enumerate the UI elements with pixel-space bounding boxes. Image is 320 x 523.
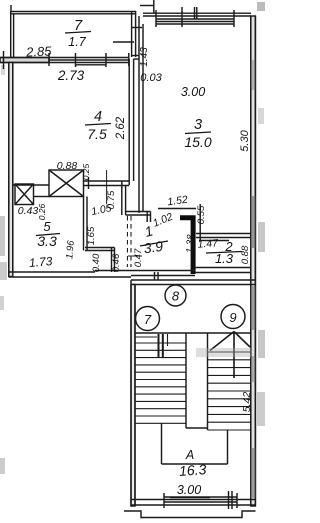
svg-text:1.38: 1.38 (185, 234, 197, 254)
svg-text:5: 5 (43, 219, 51, 234)
svg-text:1.43: 1.43 (139, 47, 150, 67)
svg-text:1.3: 1.3 (215, 251, 234, 266)
wall room4 right (129, 59, 133, 185)
room3 bottom wall (196, 234, 251, 238)
stair block bottom wall with window (131, 491, 255, 509)
landing bottom line (135, 332, 251, 334)
hall dashed door lines (127, 216, 131, 267)
wall ticks between apartment and stairs (155, 272, 159, 280)
left flight treads (135, 337, 187, 423)
room4 bottom wall (13, 177, 129, 189)
WC cubicle walls (85, 248, 115, 273)
svg-text:0.88: 0.88 (57, 160, 78, 172)
svg-text:0.40: 0.40 (91, 253, 102, 272)
balcony room7 top wall (11, 12, 136, 14)
apartment left wall (9, 63, 13, 278)
dim helper line 1.05 (106, 170, 108, 204)
apartment bottom wall (9, 268, 251, 278)
niche wall line 0.55 (199, 204, 201, 240)
svg-text:15.0: 15.0 (184, 134, 211, 150)
hall top jog wall (126, 212, 151, 223)
svg-text:0.75: 0.75 (106, 190, 117, 209)
svg-text:7: 7 (144, 312, 152, 327)
room 5 fraction line (36, 234, 60, 236)
dim line 1.52 (158, 208, 196, 210)
svg-text:0.55: 0.55 (196, 205, 207, 224)
wall between balcony and room4 with window (0, 51, 129, 69)
svg-text:1.7: 1.7 (68, 35, 86, 49)
balcony room7 left wall (11, 5, 14, 63)
svg-text:1.47: 1.47 (197, 237, 219, 250)
svg-text:9: 9 (229, 310, 236, 325)
svg-text:3.00: 3.00 (177, 483, 201, 497)
scan smudges right edge (257, 2, 265, 426)
stair stringer (186, 333, 208, 430)
svg-text:0.46: 0.46 (111, 253, 122, 272)
circle 8 (165, 285, 186, 306)
wall room3 left (132, 16, 143, 213)
svg-text:3.00: 3.00 (181, 85, 205, 99)
dim line 0.47 hall (128, 255, 142, 257)
room 1 fraction line (140, 241, 168, 246)
room 7 fraction line (65, 32, 91, 34)
svg-text:2.85: 2.85 (25, 43, 53, 59)
svg-text:0.47: 0.47 (133, 248, 144, 267)
svg-text:16.3: 16.3 (179, 461, 208, 479)
svg-text:2.62: 2.62 (115, 116, 127, 140)
svg-text:1.96: 1.96 (64, 239, 77, 259)
circle 7 (136, 307, 160, 331)
svg-text:8: 8 (172, 289, 180, 304)
svg-text:2.73: 2.73 (57, 68, 85, 83)
thick L-wall hall/room2 (180, 215, 196, 274)
shaft X-box large (49, 170, 84, 197)
scan smudges left edge (0, 65, 7, 474)
apartment right wall (251, 16, 256, 506)
entrance porch step (124, 511, 256, 518)
svg-text:0.43: 0.43 (18, 205, 39, 217)
room 4 fraction line (85, 124, 111, 126)
svg-text:0.03: 0.03 (140, 72, 162, 84)
balcony room7 right wall (113, 11, 142, 57)
stair direction arrow (210, 332, 250, 379)
svg-text:5.42: 5.42 (241, 392, 253, 413)
svg-text:0.26: 0.26 (37, 203, 47, 220)
scan hook mark top (140, 0, 154, 13)
dim line 1.47 (199, 240, 229, 242)
svg-text:0.88: 0.88 (240, 245, 251, 264)
right flight treads (208, 352, 251, 430)
landing A outline (162, 423, 228, 464)
hall left wall upper (122, 181, 126, 215)
svg-text:7.5: 7.5 (87, 126, 107, 142)
smudge across right flight (196, 348, 251, 357)
wall room5/hall (84, 197, 88, 251)
wall stub under big shaft (34, 196, 50, 198)
svg-text:5.30: 5.30 (239, 129, 251, 151)
right wall dark blotches (251, 60, 256, 498)
svg-text:3: 3 (194, 117, 202, 133)
svg-text:0.25: 0.25 (81, 163, 91, 180)
svg-text:1.73: 1.73 (28, 254, 53, 270)
svg-text:A: A (185, 448, 194, 462)
room 3 fraction line (185, 132, 211, 134)
stair door hatch (159, 334, 168, 357)
svg-text:3.9: 3.9 (143, 238, 165, 257)
svg-text:4: 4 (94, 109, 102, 125)
svg-text:3.3: 3.3 (37, 233, 57, 249)
shaft X-box small (15, 184, 34, 205)
room 2 fraction line (206, 252, 242, 254)
svg-text:1.65: 1.65 (86, 226, 97, 245)
stair block top wall (131, 280, 255, 285)
circle 9 (221, 305, 245, 329)
stair block left wall (131, 280, 135, 506)
room3 top wall with window (143, 7, 251, 27)
